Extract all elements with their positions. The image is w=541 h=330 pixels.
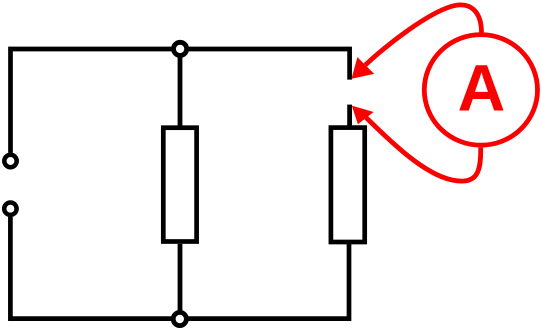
node: bottom junction (open circle) — [173, 312, 186, 325]
svg-text:A: A — [458, 51, 506, 125]
arrowhead: lower break point — [352, 106, 374, 125]
terminal: upper open-circle terminal on left rail — [4, 155, 16, 167]
arrowhead: upper break point — [352, 57, 375, 79]
node: top junction (open circle) — [174, 42, 187, 55]
wire: left rail lower + bottom rail + right rail up to resistor R2 — [10, 217, 349, 319]
wire: middle branch lead from top node down to R1 — [178, 49, 183, 126]
arrow: curved pointer from meter bottom to lower break point — [366, 118, 481, 182]
resistor R1 (middle branch) — [163, 128, 196, 242]
ammeter M1: red circle body — [424, 35, 537, 146]
wire: R1 bottom lead to bottom node — [178, 244, 183, 319]
wire: stub from bottom side of gap down to R2 — [347, 105, 352, 126]
wire: left rail upper + top rail + drop to ammeter break (top side of gap) — [11, 49, 350, 153]
arrow: curved pointer from meter top to upper break point — [365, 5, 481, 65]
terminal: lower open-circle terminal on left rail — [4, 203, 16, 215]
resistor R2 (right branch) — [331, 128, 365, 242]
